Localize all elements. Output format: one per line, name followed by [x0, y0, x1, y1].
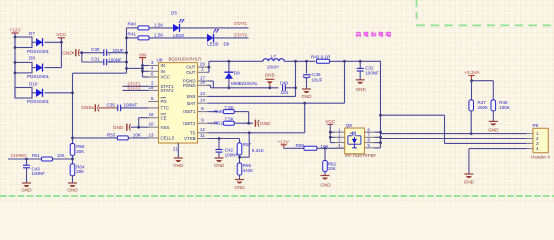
svg-text:+12V: +12V [9, 28, 21, 34]
svg-text:7.5K: 7.5K [224, 116, 234, 121]
svg-text:GND: GND [488, 128, 499, 133]
svg-text:Q9: Q9 [346, 123, 353, 128]
svg-text:100NF: 100NF [108, 58, 122, 63]
svg-text:7.5K: 7.5K [224, 105, 234, 110]
svg-text:10K: 10K [328, 166, 336, 171]
svg-text:30K: 30K [76, 149, 84, 154]
svg-text:442K: 442K [243, 168, 254, 173]
svg-text:18: 18 [200, 80, 205, 85]
svg-text:9.31K: 9.31K [252, 148, 265, 153]
svg-text:OUT: OUT [186, 70, 196, 75]
svg-text:100NF: 100NF [365, 70, 379, 75]
svg-text:GND: GND [356, 87, 367, 92]
svg-text:R59: R59 [296, 143, 305, 148]
svg-text:GND: GND [173, 163, 184, 168]
svg-text:SNS: SNS [186, 94, 195, 99]
svg-text:TTC: TTC [161, 106, 170, 111]
svg-text:ISET2: ISET2 [183, 121, 196, 126]
svg-text:100NF: 100NF [124, 103, 138, 108]
svg-text:104: 104 [281, 90, 289, 95]
svg-text:VCC: VCC [161, 75, 170, 80]
svg-text:U8: U8 [157, 57, 163, 62]
svg-text:IN: IN [161, 63, 165, 68]
svg-text:CE: CE [161, 115, 167, 120]
svg-text:10UF: 10UF [113, 48, 124, 53]
svg-text:TS: TS [190, 130, 196, 135]
svg-text:D8: D8 [29, 56, 35, 61]
svg-text:GND: GND [234, 185, 245, 190]
svg-text:GND: GND [260, 121, 271, 127]
svg-text:GND: GND [464, 180, 475, 185]
svg-text:11: 11 [200, 133, 205, 138]
svg-text:PG: PG [161, 99, 168, 104]
svg-text:VSS: VSS [161, 125, 170, 130]
svg-text:GND: GND [21, 188, 32, 193]
svg-text:100NF: 100NF [32, 171, 46, 176]
svg-text:1.5K: 1.5K [154, 22, 164, 27]
svg-text:30K: 30K [76, 169, 84, 174]
svg-text:CELLS: CELLS [161, 136, 175, 141]
svg-text:STAT1: STAT1 [234, 21, 248, 26]
svg-text:100NF: 100NF [225, 152, 239, 157]
svg-text:R46: R46 [214, 109, 223, 114]
svg-text:IN: IN [161, 69, 165, 74]
svg-text:GND: GND [320, 183, 331, 188]
svg-text:PDS1040L: PDS1040L [27, 74, 50, 79]
svg-text:VCC: VCC [56, 32, 67, 38]
svg-text:19: 19 [149, 85, 154, 90]
svg-text:R51: R51 [214, 120, 223, 125]
svg-text:100K: 100K [499, 105, 510, 110]
svg-text:STAT2: STAT2 [161, 88, 175, 93]
svg-text:BQ24103ARHLR: BQ24103ARHLR [169, 56, 202, 61]
svg-text:GND: GND [81, 105, 92, 111]
svg-text:10K: 10K [57, 153, 65, 158]
svg-text:12: 12 [200, 127, 205, 132]
svg-text:VIN: VIN [139, 52, 146, 57]
svg-text:GND: GND [214, 163, 225, 168]
svg-text:LED0: LED0 [207, 41, 219, 46]
svg-text:13: 13 [200, 91, 205, 96]
svg-text:1.5K: 1.5K [154, 32, 164, 37]
svg-text:D9: D9 [234, 71, 240, 76]
svg-text:D6: D6 [224, 41, 230, 46]
svg-text:P6: P6 [533, 123, 539, 128]
svg-text:PDS1040L: PDS1040L [27, 99, 50, 104]
svg-text:14: 14 [200, 98, 205, 103]
svg-text:R61: R61 [32, 153, 40, 158]
svg-text:C31: C31 [91, 57, 100, 62]
svg-text:13: 13 [149, 132, 154, 137]
svg-text:LED0: LED0 [173, 33, 185, 38]
svg-text:C35: C35 [107, 103, 116, 108]
svg-text:R57: R57 [243, 142, 252, 147]
svg-text:PDS1040L: PDS1040L [27, 49, 50, 54]
svg-text:GND: GND [67, 188, 78, 193]
svg-text:R41: R41 [128, 31, 137, 36]
svg-text:D5: D5 [171, 10, 177, 15]
svg-text:R42 0.1R: R42 0.1R [311, 55, 331, 60]
svg-text:GND: GND [265, 72, 276, 77]
svg-text:IRF7828TRPBF: IRF7828TRPBF [345, 153, 377, 158]
svg-text:STAT2: STAT2 [234, 33, 248, 38]
svg-text:21: 21 [173, 147, 178, 152]
svg-text:PGND: PGND [183, 83, 196, 88]
svg-text:CHARG: CHARG [11, 153, 27, 158]
svg-text:10: 10 [149, 122, 154, 127]
svg-text:GND: GND [113, 125, 124, 131]
svg-text:C30: C30 [91, 47, 100, 52]
svg-text:D7: D7 [29, 31, 35, 36]
svg-text:L7: L7 [271, 54, 277, 59]
svg-text:BAT: BAT [187, 101, 196, 106]
svg-text:MMBZ18VAL: MMBZ18VAL [231, 81, 258, 86]
svg-text:16: 16 [149, 112, 154, 117]
svg-text:C40: C40 [280, 80, 289, 85]
svg-text:VTSB: VTSB [184, 136, 196, 141]
svg-text:200K: 200K [478, 105, 489, 110]
svg-text:STAT2: STAT2 [127, 86, 141, 91]
svg-text:GND: GND [301, 94, 312, 99]
svg-text:10K: 10K [133, 133, 142, 138]
svg-text:R53: R53 [107, 133, 116, 138]
svg-text:D10: D10 [29, 82, 38, 87]
svg-text:ISET1: ISET1 [183, 109, 196, 114]
svg-text:GND: GND [62, 50, 73, 56]
svg-text:10UF: 10UF [311, 77, 322, 82]
svg-text:Header 4: Header 4 [531, 155, 550, 160]
svg-text:R40: R40 [128, 21, 137, 26]
svg-text:10UH: 10UH [267, 64, 279, 69]
